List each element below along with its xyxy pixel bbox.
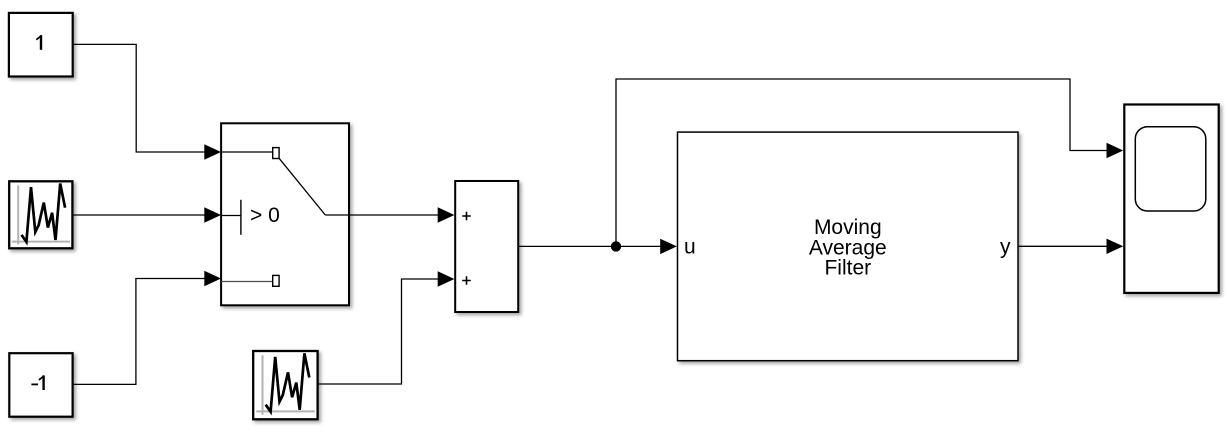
arrowhead into switch port 2 bbox=[204, 207, 221, 222]
svg-text:> 0: > 0 bbox=[250, 204, 280, 227]
noise waveform bbox=[266, 353, 310, 411]
scope block bbox=[1124, 105, 1218, 293]
constant block "-1" bbox=[9, 353, 72, 417]
arrowhead into sum port 1 bbox=[438, 207, 455, 222]
digit 1 stem bbox=[40, 35, 42, 50]
sum block bbox=[455, 181, 518, 312]
switch inner port1 line bbox=[221, 151, 273, 153]
noise source block 2 bbox=[253, 351, 317, 419]
wire: noise 2 -> sum port 2 bbox=[318, 279, 438, 384]
switch threshold tick bar bbox=[240, 200, 242, 235]
wire: constant 1 -> switch port 1 bbox=[73, 44, 205, 152]
wire: branch junction -> top -> scope port 1 bbox=[616, 79, 1107, 246]
wire: MAF y -> scope port 2 bbox=[1018, 245, 1107, 247]
arrowhead into switch port 1 bbox=[204, 144, 221, 159]
digit 1 stem bbox=[42, 375, 44, 390]
minus sign bbox=[31, 383, 38, 385]
svg-text:u: u bbox=[684, 236, 696, 259]
noise waveform bbox=[22, 184, 66, 242]
arrowhead into scope port 1 bbox=[1107, 143, 1124, 158]
arrowhead into sum port 2 bbox=[438, 271, 455, 286]
gray horizontal axis bbox=[256, 410, 315, 412]
switch output line bbox=[325, 214, 349, 216]
Moving Average Filter block bbox=[678, 132, 1019, 361]
switch selector diagonal bbox=[279, 158, 325, 215]
arrowhead into MAF u bbox=[660, 239, 677, 254]
wire: noise 1 -> switch port 2 bbox=[72, 214, 205, 216]
digit 1 flag bbox=[39, 376, 44, 380]
arrowhead into scope port 2 bbox=[1107, 239, 1124, 254]
wire: switch -> sum port 1 bbox=[349, 214, 438, 216]
switch inner port3 line bbox=[221, 281, 273, 283]
gray horizontal axis bbox=[12, 241, 70, 243]
constant block "1" bbox=[9, 13, 73, 77]
switch port3 terminal square bbox=[273, 275, 279, 286]
arrowhead into switch port 3 bbox=[204, 271, 221, 286]
plus sign input 2 bbox=[462, 276, 471, 285]
noise source block 1 bbox=[9, 181, 72, 248]
wire: constant -1 -> switch port 3 bbox=[73, 279, 205, 385]
switch block bbox=[221, 123, 349, 305]
scope screen bbox=[1135, 127, 1206, 211]
svg-text:Filter: Filter bbox=[824, 257, 871, 280]
switch inner port2 line bbox=[221, 215, 241, 217]
svg-text:y: y bbox=[1000, 236, 1011, 259]
junction node dot bbox=[611, 241, 621, 251]
svg-text:Moving: Moving bbox=[814, 216, 882, 239]
digit 1 flag bbox=[36, 36, 41, 40]
plus sign input 1 bbox=[462, 212, 471, 221]
wire: sum -> junction -> MAF input u bbox=[518, 245, 661, 247]
gray vertical axis bbox=[262, 355, 264, 415]
gray vertical axis bbox=[17, 185, 19, 244]
switch port1 terminal square bbox=[273, 148, 279, 159]
